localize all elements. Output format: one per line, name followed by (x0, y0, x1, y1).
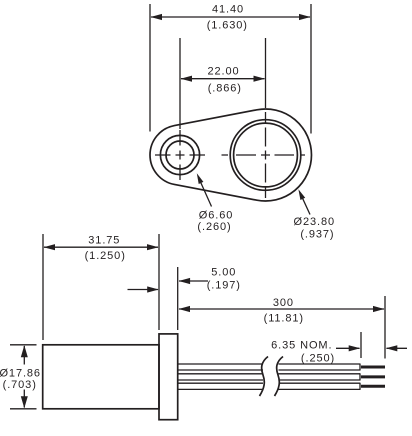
extension line right of 22.00 dim (265, 38, 267, 108)
cable break squiggle left (260, 357, 269, 397)
svg-text:Ø17.86: Ø17.86 (0, 368, 41, 380)
dimension 6.35 left-pointing arrow (387, 347, 408, 349)
extension line left of 31.75 dim (42, 234, 44, 340)
wire 1 insulation (179, 364, 361, 370)
cable break squiggle right (275, 357, 284, 397)
large circle outer ring (body dia) (230, 120, 301, 191)
svg-text:31.75: 31.75 (88, 235, 120, 247)
centerline horizontal large circle (222, 154, 306, 156)
dimension line 31.75 (44, 246, 158, 248)
extension line strip start (360, 332, 362, 358)
extension line left of 41.40 dim (149, 4, 151, 132)
stripped conductor 2 (361, 375, 385, 378)
leader arrow for 23.80 flange (301, 194, 311, 215)
svg-text:6.35 NOM.: 6.35 NOM. (271, 340, 332, 352)
svg-text:(.703): (.703) (3, 379, 37, 391)
svg-text:(.937): (.937) (300, 228, 334, 240)
svg-text:Ø6.60: Ø6.60 (199, 210, 233, 222)
leader arrow for 6.60 hole (199, 178, 212, 207)
centerline horizontal small circle (155, 154, 205, 156)
svg-text:300: 300 (273, 297, 294, 309)
dimension 6.35 right-pointing arrow (336, 347, 360, 349)
extension line left of 22.00 dim (179, 38, 181, 129)
dimension line 300 (179, 308, 384, 310)
wire 3 insulation (179, 383, 361, 389)
tick bottom of 17.86 dim (10, 408, 37, 410)
svg-text:(.197): (.197) (207, 280, 241, 292)
svg-text:(1.630): (1.630) (207, 19, 248, 31)
large circle inner ring (234, 123, 298, 187)
dimension 5.00 right-pointing arrow (128, 289, 159, 291)
extension line right of 41.40 dim (310, 4, 312, 134)
dimension 5.00 left-pointing arrow (179, 280, 208, 282)
mounting flange (side view) (159, 334, 178, 420)
svg-text:41.40: 41.40 (212, 4, 244, 16)
body cylinder (side view) (43, 345, 159, 409)
small hole boss circle (160, 135, 199, 174)
flange outline (top view) (150, 109, 311, 201)
svg-text:(.260): (.260) (197, 221, 231, 233)
stripped conductor 1 (361, 366, 385, 369)
svg-text:22.00: 22.00 (207, 65, 239, 77)
wire 2 insulation (179, 374, 361, 380)
stripped conductor 3 (361, 385, 385, 388)
svg-text:(1.250): (1.250) (85, 250, 126, 262)
tick top of 17.86 dim (10, 344, 37, 346)
dimension line 41.40 (151, 16, 310, 18)
extension line flange right face (177, 267, 179, 330)
small hole circle 6.60 (166, 141, 194, 169)
centerline vertical small circle (179, 130, 181, 180)
svg-text:(.250): (.250) (301, 353, 335, 365)
svg-text:Ø23.80: Ø23.80 (294, 216, 335, 228)
centerline vertical large circle (265, 112, 267, 198)
vertical dimension line 17.86 with arrows (23, 346, 25, 365)
svg-text:(.866): (.866) (208, 83, 242, 95)
extension line wire end (384, 296, 386, 359)
dimension line 22.00 (181, 78, 265, 80)
svg-text:5.00: 5.00 (211, 267, 236, 279)
svg-text:(11.81): (11.81) (264, 312, 304, 324)
extension line right of 31.75 dim (158, 234, 160, 330)
